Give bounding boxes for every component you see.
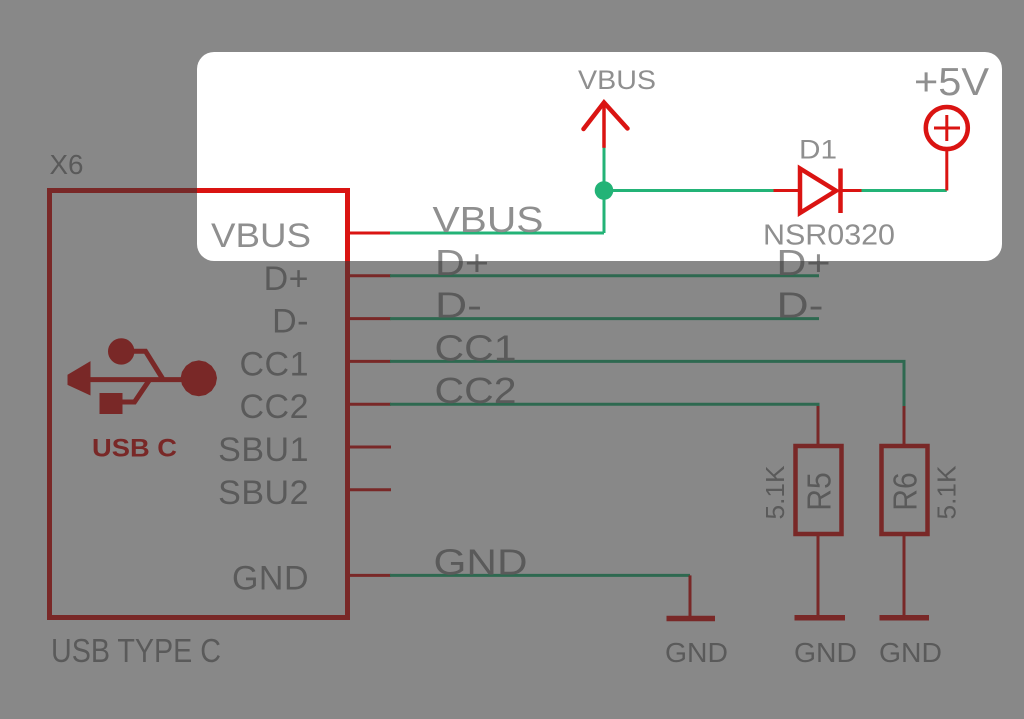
svg-text:GND: GND — [794, 637, 857, 668]
svg-text:GND: GND — [232, 559, 309, 597]
svg-text:USB TYPE C: USB TYPE C — [51, 632, 221, 669]
pin GND stub — [350, 574, 391, 577]
pin CC1 stub — [350, 360, 391, 363]
resistor R5 lead top — [817, 406, 820, 446]
svg-text:GND: GND — [665, 637, 728, 668]
pin VBUS stub — [350, 232, 391, 235]
resistor R5 body — [796, 446, 842, 534]
resistor R6 lead bottom — [903, 534, 906, 616]
wire CC2 — [390, 404, 818, 407]
resistor R5 lead bottom — [817, 534, 820, 616]
ground symbol under R5 — [795, 615, 846, 621]
pin CC2 stub — [350, 403, 391, 406]
svg-text:5.1K: 5.1K — [932, 465, 962, 520]
svg-text:5.1K: 5.1K — [760, 465, 790, 520]
pin SBU2 stub — [350, 488, 391, 491]
svg-text:R5: R5 — [802, 472, 839, 511]
pin SBU1 stub — [350, 446, 391, 449]
power +5V symbol — [926, 107, 968, 191]
svg-text:D-: D- — [435, 285, 482, 326]
ground symbol at GND pin wire — [667, 575, 716, 618]
wire D+ — [390, 274, 819, 277]
pin D+ stub — [350, 274, 391, 277]
svg-text:SBU2: SBU2 — [218, 474, 309, 512]
svg-text:D+: D+ — [264, 260, 309, 298]
wire VBUS to diode — [604, 189, 774, 192]
USB icon trident — [68, 339, 217, 414]
svg-text:R6: R6 — [888, 472, 925, 511]
wire GND from pin — [390, 574, 690, 577]
wire VBUS vertical to junction — [603, 148, 606, 234]
highlight overlay — [197, 52, 1002, 261]
wire VBUS horizontal — [390, 232, 604, 235]
svg-text:X6: X6 — [50, 149, 84, 180]
wire CC1 — [390, 361, 904, 406]
ground symbol under R6 — [880, 615, 930, 621]
svg-text:GND: GND — [879, 637, 942, 668]
diode D1 — [774, 169, 862, 214]
power flag VBUS arrow — [584, 103, 628, 148]
svg-text:CC1: CC1 — [435, 327, 517, 368]
wire D- — [390, 317, 819, 320]
wire diode to +5V — [862, 189, 947, 192]
svg-text:CC2: CC2 — [239, 388, 309, 426]
svg-text:SBU1: SBU1 — [218, 431, 309, 469]
svg-text:CC1: CC1 — [239, 345, 309, 383]
svg-text:D-: D- — [272, 303, 309, 341]
resistor R6 lead top — [903, 406, 906, 446]
svg-text:CC2: CC2 — [435, 370, 517, 411]
pin D- stub — [350, 317, 391, 320]
svg-text:USB C: USB C — [92, 435, 177, 463]
svg-text:GND: GND — [434, 541, 528, 582]
resistor R6 body — [882, 446, 928, 534]
connector X6 body — [50, 191, 348, 618]
junction VBUS node — [595, 181, 614, 200]
svg-text:D-: D- — [777, 285, 824, 326]
